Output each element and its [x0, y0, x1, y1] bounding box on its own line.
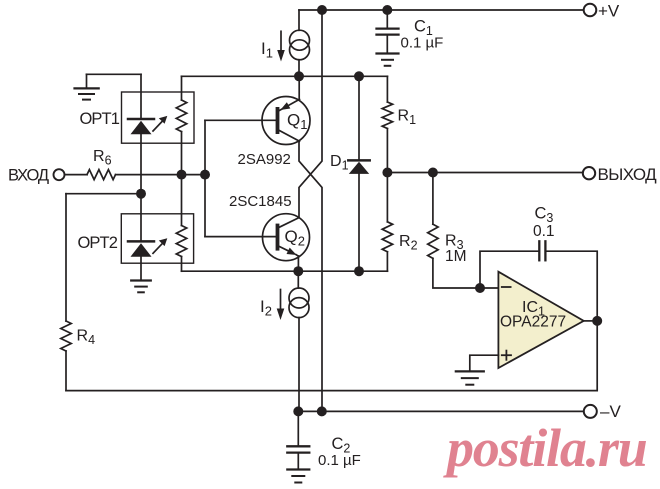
resistor R2 [382, 173, 392, 272]
transistor Q1 (2SA992 PNP) [262, 97, 310, 145]
junction dot inverting input [475, 283, 485, 293]
wire top +V rail [299, 9, 584, 11]
LED of OPT2 [128, 194, 154, 280]
svg-text:ВХОД: ВХОД [8, 166, 49, 184]
wire Q2 emitter down [297, 256, 299, 271]
svg-text:R1: R1 [398, 108, 417, 128]
wire upper node rail y=76 [182, 75, 388, 77]
wire feedback to R4 [66, 321, 597, 391]
svg-text:D1: D1 [330, 153, 349, 173]
junction dot R3 top [428, 168, 438, 178]
svg-text:OPT1: OPT1 [80, 110, 120, 128]
op-amp minus input mark [502, 286, 511, 288]
junction dot R1/R2 [382, 168, 392, 178]
wire Q1 emitter up [298, 76, 300, 99]
wire Q2 base [205, 236, 276, 238]
svg-text:postila.ru: postila.ru [443, 418, 647, 478]
svg-text:2SC1845: 2SC1845 [229, 193, 292, 210]
arrow of OPT2 LED [153, 238, 167, 253]
wire R6 to node [116, 174, 206, 176]
svg-text:0.1 µF: 0.1 µF [401, 35, 444, 52]
svg-text:OPA2277: OPA2277 [500, 314, 566, 331]
ground at op-amp plus input [456, 371, 484, 384]
svg-text:Q1: Q1 [287, 111, 307, 133]
arrow of OPT1 LED [153, 116, 167, 131]
ground below C2 [287, 470, 309, 483]
photoresistor of OPT2 [176, 175, 186, 272]
current source I1 [277, 10, 309, 76]
terminal -V [584, 405, 597, 418]
ground top-left [75, 74, 99, 99]
LED of OPT1 [128, 74, 154, 193]
svg-text:ВЫХОД: ВЫХОД [598, 165, 658, 184]
svg-text:R2: R2 [399, 233, 418, 253]
wire -V rail [298, 410, 583, 412]
wire top rail crossing down to Q2 collector [299, 10, 322, 218]
wire input to R6 [65, 174, 88, 176]
op-amp U1 OPA2277 [498, 272, 583, 368]
resistor R1 [382, 76, 392, 172]
diode D1 [348, 76, 369, 271]
op-amp plus input mark [502, 351, 511, 360]
junction dot LED chain [136, 189, 146, 199]
photoresistor of OPT1 [176, 76, 186, 174]
resistor R4 [61, 194, 71, 391]
junction dot I2 bottom [293, 406, 303, 416]
ground below OPT2 LED [131, 281, 151, 293]
capacitor C1 [377, 10, 399, 52]
wire op-amp output [584, 320, 598, 322]
wire ground to OPT1 LED [87, 73, 142, 75]
junction dot [294, 71, 304, 81]
capacitor C3 [539, 241, 545, 260]
svg-text:+V: +V [598, 2, 620, 21]
optocoupler OPT2 box [121, 214, 193, 263]
transistor Q2 (2SC1845 NPN) [263, 214, 310, 261]
svg-text:R4: R4 [77, 328, 96, 348]
junction dot [354, 71, 364, 81]
junction dot D1 bottom [354, 266, 364, 276]
svg-text:2SA992: 2SA992 [238, 151, 291, 168]
junction dot Q2 emitter [293, 266, 303, 276]
terminal VYHOD output [583, 167, 595, 179]
terminal VHOD input [54, 169, 65, 180]
junction dot input/base column [200, 170, 210, 180]
wire C3 feedback branch [480, 251, 538, 288]
junction dot [382, 5, 392, 15]
junction dot input/photoresistors [177, 170, 187, 180]
svg-text:I1: I1 [261, 39, 273, 61]
terminal +V [584, 4, 597, 17]
svg-text:R6: R6 [93, 148, 112, 168]
wire R4 top link y=193.7 [66, 193, 141, 195]
svg-text:0.1 µF: 0.1 µF [318, 452, 361, 469]
wire lower node rail y=271 [182, 270, 388, 272]
current source I2 [277, 271, 309, 411]
ground below C1 [377, 54, 399, 66]
wire Q1 collector crossing down to -V rail [299, 141, 322, 411]
wire C3 to output [547, 251, 598, 321]
resistor R6 [87, 170, 116, 180]
junction dot crossing line bottom [317, 406, 327, 416]
wire plus input to ground [470, 355, 499, 370]
svg-text:1M: 1M [445, 248, 467, 265]
optocoupler OPT1 box [122, 92, 195, 143]
wire Q1 base [205, 119, 276, 121]
svg-text:Q2: Q2 [285, 227, 305, 249]
wire output rail y=172.5 [387, 172, 582, 174]
svg-text:C3: C3 [535, 205, 554, 226]
svg-text:I2: I2 [260, 297, 272, 319]
svg-text:0.1: 0.1 [533, 223, 555, 240]
svg-text:OPT2: OPT2 [78, 234, 118, 252]
junction dot output [592, 316, 602, 326]
resistor R3 [428, 173, 499, 289]
wire base column x=205 [204, 120, 206, 236]
capacitor C2 [287, 411, 309, 468]
junction dot [317, 5, 327, 15]
